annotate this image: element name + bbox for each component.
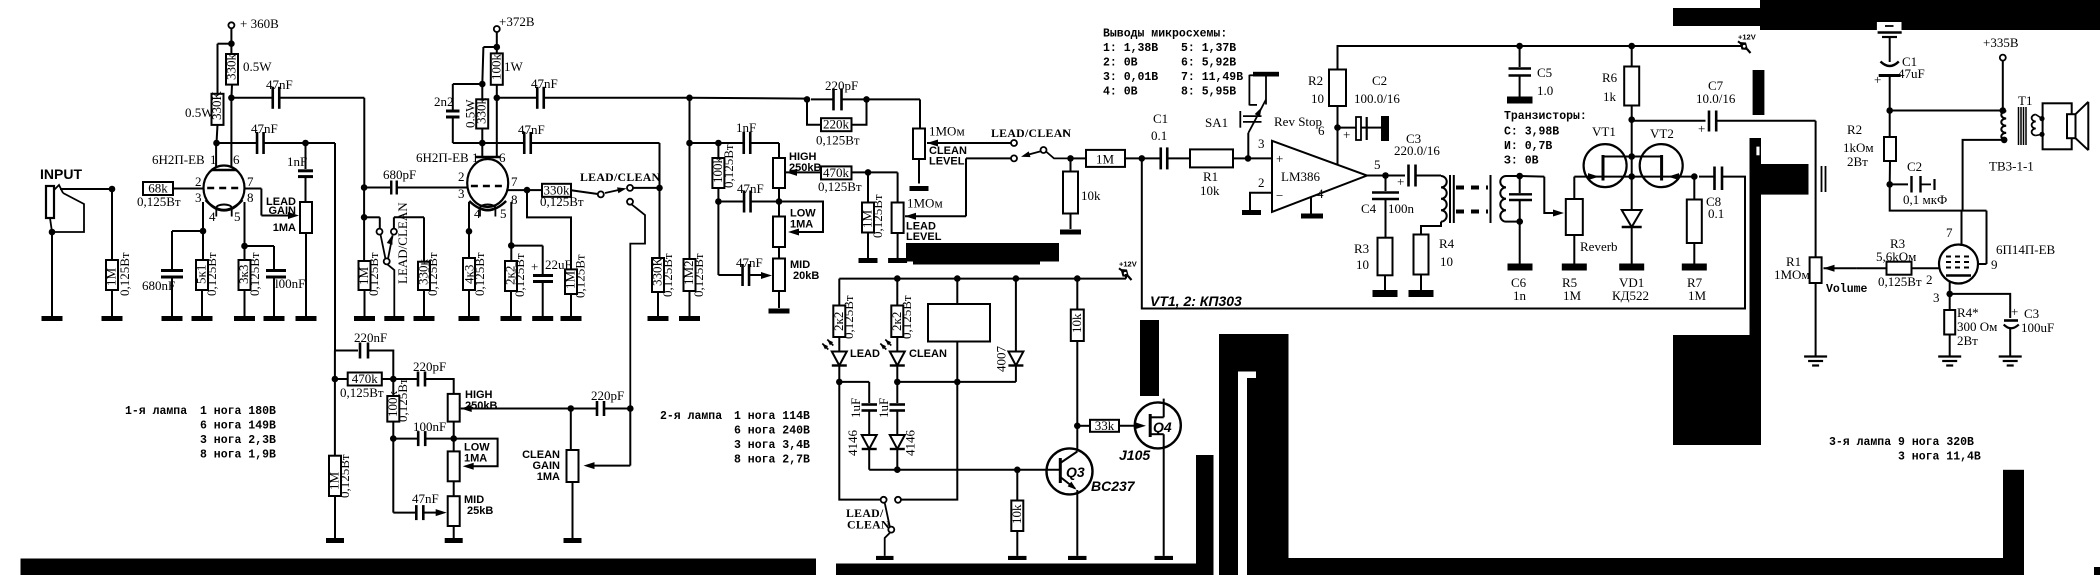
resistor 10k Q3 collector load [1071, 310, 1084, 342]
pin6 line [1337, 106, 1339, 165]
wire anode node [1890, 184, 1987, 210]
svg-text:1МОм: 1МОм [1774, 267, 1810, 282]
LED CLEAN indicator [896, 337, 898, 352]
svg-text:10: 10 [1311, 91, 1324, 106]
black bar E [1753, 70, 1765, 115]
grid leak network stage2 [361, 184, 368, 191]
svg-text:100uF: 100uF [2021, 320, 2054, 335]
svg-text:1 нога 114В: 1 нога 114В [734, 410, 810, 423]
drain Q4 to relay line (under blob) [1150, 416, 1164, 418]
resistor 330k 0,125W grid B [542, 184, 571, 197]
svg-text:220pF: 220pF [591, 388, 624, 403]
svg-text:680nF: 680nF [142, 278, 175, 293]
svg-text:VT1, 2: КП303: VT1, 2: КП303 [1150, 293, 1242, 309]
pin4 to ground [1310, 197, 1312, 214]
transistor VT1 KP303 [1584, 144, 1627, 187]
wire lead level wiper to switch [905, 213, 916, 220]
resistor 100k tone [717, 143, 719, 158]
svg-text:0,125Вт: 0,125Вт [425, 252, 440, 296]
node A [804, 96, 811, 103]
capacitor C6 1n across pickup [1519, 176, 1521, 193]
resistor R6 1k supply [1624, 67, 1639, 106]
svg-text:4146: 4146 [903, 430, 918, 457]
svg-text:ТВ3-1-1: ТВ3-1-1 [1989, 159, 2034, 174]
resistor 1M2 load [689, 98, 691, 143]
reverb pickup coil [1500, 176, 1506, 222]
dashed link to reverb tank [1456, 186, 1488, 190]
svg-text:0.1: 0.1 [1708, 206, 1724, 221]
wire +12V rail [1338, 46, 1745, 70]
chassis ground top [1878, 31, 1902, 33]
svg-text:1: 1,38В: 1: 1,38В [1103, 42, 1158, 55]
relay K1 coil box [928, 304, 990, 342]
svg-text:C5: C5 [1537, 65, 1552, 80]
resistor 330k 0.5W anode A load [218, 43, 232, 45]
svg-text:КД522: КД522 [1612, 288, 1649, 303]
potentiometer R5 Reverb 1M [1566, 199, 1583, 235]
svg-text:2Вт: 2Вт [1957, 333, 1978, 348]
resistor 330k lead path load [659, 188, 661, 258]
svg-text:+: + [2011, 304, 2018, 319]
svg-text:47uF: 47uF [1898, 66, 1925, 81]
extra cap plates near blob [1821, 166, 1823, 192]
potentiometer LEAD GAIN 1MA [300, 202, 312, 233]
svg-text:+: + [1343, 127, 1350, 142]
svg-text:0.5W: 0.5W [243, 59, 272, 74]
black redaction blob middle [906, 243, 1059, 262]
svg-text:5: 5 [500, 206, 507, 221]
resistor 33k to Q4 gate [1077, 425, 1090, 427]
black bar G above Q4 [1140, 320, 1159, 396]
svg-text:0,125Вт: 0,125Вт [573, 254, 588, 298]
capacitor 1uF clean chain [896, 382, 898, 403]
svg-text:100n: 100n [1388, 201, 1415, 216]
svg-text:220.0/16: 220.0/16 [1394, 143, 1440, 158]
wire LED lead chain to switch contact [839, 382, 880, 500]
wire B+ node [1890, 110, 2003, 112]
svg-text:3 нога 3,4В: 3 нога 3,4В [734, 439, 810, 452]
svg-text:10: 10 [1440, 254, 1453, 269]
resistor 1M clean grid load [334, 379, 336, 456]
svg-text:+12V: +12V [1119, 260, 1137, 269]
wire clean level wiper to switch [927, 140, 938, 147]
resistor R1 10k [1190, 149, 1233, 167]
grid wire pin2 from R3 [1912, 267, 1940, 269]
svg-text:+: + [1276, 151, 1283, 166]
diode 4146 lead chain [868, 411, 870, 436]
svg-text:1n: 1n [1513, 288, 1527, 303]
svg-text:SA1: SA1 [1205, 115, 1228, 130]
svg-text:VT1: VT1 [1592, 124, 1616, 139]
svg-text:4: 4 [209, 209, 216, 224]
transistor VT2 KP303 [1640, 144, 1683, 187]
svg-text:+: + [1874, 72, 1881, 87]
svg-text:INPUT: INPUT [40, 166, 82, 182]
svg-text:0,125Вт: 0,125Вт [137, 194, 181, 209]
svg-text:R6: R6 [1602, 70, 1618, 85]
svg-text:0,125Вт: 0,125Вт [366, 252, 381, 296]
LED LEAD indicator [838, 337, 840, 352]
svg-text:LEAD/CLEAN: LEAD/CLEAN [580, 170, 661, 184]
svg-text:3: 0,01В: 3: 0,01В [1103, 71, 1158, 84]
svg-text:7: 7 [1946, 225, 1953, 240]
svg-text:0,125Вт: 0,125Вт [841, 295, 856, 339]
svg-text:1M: 1M [1563, 288, 1582, 303]
potentiometer LEAD LEVEL 1MOm [868, 171, 898, 173]
wire relay drive down to switch [902, 382, 958, 500]
svg-text:0,125Вт: 0,125Вт [899, 295, 914, 339]
svg-text:4: 4 [474, 206, 481, 221]
potentiometer CLEAN LEVEL 1MOm [913, 129, 925, 160]
svg-text:1MA: 1MA [464, 453, 487, 465]
black bottom bar 2 [836, 564, 1214, 575]
transformer core [1449, 175, 1451, 223]
tube V3 6P14P-EV output pentode [1939, 245, 1978, 284]
svg-text:9: 9 [1991, 257, 1998, 272]
resistor 330k 0.5W anode A load stage2 [483, 46, 496, 48]
capacitor C1 47uF filter [1881, 62, 1899, 67]
gate line VT1 VT2 [1574, 176, 1694, 178]
svg-text:0.5W: 0.5W [463, 99, 478, 128]
resistor 4k3 cathode A stage2 [468, 202, 470, 258]
resistor 2k2 LED clean [896, 279, 898, 306]
svg-text:0.1: 0.1 [1151, 128, 1167, 143]
svg-text:1nF: 1nF [287, 154, 307, 169]
svg-text:2: 2 [1926, 272, 1933, 287]
svg-text:2n2: 2n2 [434, 94, 454, 109]
svg-text:LEVEL: LEVEL [906, 231, 942, 243]
svg-text:1 нога 180В: 1 нога 180В [200, 405, 276, 418]
resistor 10k to ground [1070, 158, 1072, 171]
speaker [2043, 103, 2072, 149]
wire grid B pin7 to pot wiper [244, 188, 261, 190]
svg-text:0,125Вт: 0,125Вт [870, 194, 885, 238]
svg-text:0,125Вт: 0,125Вт [204, 252, 219, 296]
svg-text:0,125Вт: 0,125Вт [117, 252, 132, 296]
black bar top A [1673, 8, 1760, 26]
cathode B stage2 [510, 202, 512, 246]
collector Q3 [1060, 452, 1077, 464]
svg-text:7: 7 [511, 174, 518, 189]
svg-text:100k: 100k [488, 54, 503, 81]
svg-text:C4: C4 [1361, 201, 1377, 216]
svg-text:680pF: 680pF [383, 167, 416, 182]
resistor 330k 0.5W anode B load [230, 44, 232, 54]
svg-text:LEAD/CLEAN: LEAD/CLEAN [395, 202, 410, 284]
svg-text:6: 6 [1318, 123, 1325, 138]
wire anode A row [453, 142, 483, 144]
potentiometer MID 20k [773, 259, 785, 292]
svg-text:1k: 1k [1603, 89, 1617, 104]
resistor 100k 1W anode B load [496, 47, 498, 53]
svg-text:0,125Вт: 0,125Вт [816, 133, 860, 148]
svg-text:R4: R4 [1439, 236, 1455, 251]
pin2 to ground [1250, 193, 1272, 210]
capacitor C3 100uF cathode bypass [1950, 294, 2011, 318]
resistor 100k clean [392, 379, 394, 396]
svg-text:1: 1 [472, 150, 479, 165]
capacitor 2n2 anode A [453, 83, 483, 85]
potentiometer HIGH 250k [773, 158, 785, 188]
black bottom bar 3 [1289, 558, 2004, 575]
svg-text:0.5W: 0.5W [185, 105, 214, 120]
potentiometer HIGH 250k clean [448, 394, 460, 422]
svg-text:6: 6 [233, 152, 240, 167]
svg-text:0,125Вт: 0,125Вт [721, 144, 736, 188]
black column I [1219, 372, 1238, 575]
resistor 2k2 LED lead [838, 279, 840, 306]
svg-text:R2: R2 [1308, 73, 1323, 88]
svg-text:6: 6 [499, 150, 506, 165]
resistor R2 1kOm 2W [1889, 111, 1891, 138]
drain leads to common node [1603, 156, 1632, 158]
svg-text:1МОм: 1МОм [929, 124, 965, 139]
wire relay rail [839, 278, 1126, 280]
resistor R3 5,6kOm [1887, 262, 1912, 275]
svg-text:3: 3 [1933, 290, 1940, 305]
wire pin7 anode [1961, 211, 1963, 246]
black rect H [1219, 334, 1289, 372]
svg-text:5,6kОм: 5,6kОм [1876, 249, 1916, 264]
svg-text:2: 2 [195, 174, 202, 189]
wire anode A pin1 to node [215, 143, 217, 168]
svg-text:10k: 10k [1081, 188, 1101, 203]
svg-text:100.0/16: 100.0/16 [1354, 91, 1400, 106]
wire transformer primary return [1963, 140, 2005, 211]
resistor R4* 300 Om 2W [1949, 294, 1951, 310]
svg-text:T1: T1 [2018, 93, 2032, 108]
svg-text:1M: 1M [1688, 288, 1707, 303]
switch LEAD/CLEAN stage2 grid [364, 216, 380, 218]
resistor R2 10 supply [1329, 70, 1346, 107]
svg-text:8: 5,95В: 8: 5,95В [1181, 86, 1236, 99]
svg-text:C1: C1 [1153, 111, 1168, 126]
black column J [1247, 372, 1289, 575]
svg-text:1М: 1М [1096, 151, 1115, 166]
wire clean path down to clean gain [630, 204, 645, 409]
svg-text:3-я лампа 9 нога 320В: 3-я лампа 9 нога 320В [1829, 436, 1974, 449]
svg-text:6: 5,92В: 6: 5,92В [1181, 57, 1236, 70]
svg-text:R3: R3 [1354, 241, 1369, 256]
pin5 output node [1367, 175, 1386, 177]
svg-text:1MA: 1MA [790, 219, 813, 231]
svg-text:470k: 470k [352, 371, 379, 386]
cathode B network [244, 202, 246, 246]
svg-text:6Н2П-ЕВ: 6Н2П-ЕВ [152, 152, 205, 167]
svg-text:8 нога 1,9В: 8 нога 1,9В [200, 449, 276, 462]
svg-text:1-я лампа: 1-я лампа [125, 405, 187, 418]
wire relay bottom row [897, 381, 1016, 383]
power terminal +360V [228, 22, 234, 28]
svg-text:BC237: BC237 [1091, 478, 1136, 494]
svg-text:5: 5 [1374, 157, 1381, 172]
wire top row lead channel [690, 97, 808, 100]
resistor 10k Q3 base [1016, 470, 1018, 501]
resistor 3k3 cathode B [244, 246, 246, 260]
svg-text:Volume: Volume [1826, 283, 1868, 296]
svg-text:10: 10 [1356, 257, 1369, 272]
svg-text:3 нога 11,4В: 3 нога 11,4В [1898, 451, 1981, 464]
jack switch contact to ground [52, 193, 84, 232]
svg-text:+335В: +335В [1983, 35, 2019, 50]
svg-text:1МОм: 1МОм [907, 196, 943, 211]
svg-text:0,125Вт: 0,125Вт [691, 253, 706, 297]
resistor 1M input load [109, 186, 116, 193]
svg-text:7: 7 [247, 174, 254, 189]
switch common to ground [384, 258, 390, 264]
svg-text:Транзисторы:: Транзисторы: [1504, 110, 1587, 123]
resistor 2k2 cathode B stage2 [510, 246, 512, 261]
svg-text:LEVEL: LEVEL [929, 156, 965, 168]
op-amp U1 LM386 [1272, 141, 1367, 212]
svg-text:2Вт: 2Вт [1847, 154, 1868, 169]
cathode A network [202, 202, 204, 231]
svg-text:6Н2П-ЕВ: 6Н2П-ЕВ [416, 150, 469, 165]
svg-text:300 Ом: 300 Ом [1957, 319, 1997, 334]
capacitor 680nF cathode A bypass [172, 230, 203, 232]
svg-text:7: 11,49В: 7: 11,49В [1181, 71, 1243, 84]
grid B wire stage2 to 330k [508, 189, 527, 191]
resistor R3 10 [1378, 238, 1393, 276]
svg-text:5: 5 [234, 209, 241, 224]
diode VD1 KD522 [1631, 177, 1633, 210]
svg-text:25kB: 25kB [467, 505, 493, 517]
svg-text:И: 0,7В: И: 0,7В [1504, 140, 1552, 153]
svg-text:R1: R1 [1203, 169, 1218, 184]
power terminal +372V [494, 26, 500, 32]
svg-text:5: 1,37В: 5: 1,37В [1181, 42, 1236, 55]
diode 4146 clean chain [896, 411, 898, 436]
svg-text:6 нога 240В: 6 нога 240В [734, 425, 810, 438]
capacitor C5 1.0 supply filter [1516, 43, 1523, 50]
svg-text:0,125Вт: 0,125Вт [818, 179, 862, 194]
capacitor 1uF lead chain [839, 381, 869, 383]
cathode pin3 node [1949, 282, 1951, 294]
svg-text:+372В: +372В [499, 14, 535, 29]
svg-text:0,125Вт: 0,125Вт [540, 194, 584, 209]
svg-text:0,125Вт: 0,125Вт [247, 252, 262, 296]
svg-text:l00nF: l00nF [275, 276, 305, 291]
black bar top B [1760, 0, 2100, 30]
black corner bottom right [2094, 567, 2100, 575]
svg-text:2: 2 [1258, 175, 1265, 190]
potentiometer R1 1MOm Volume [1824, 265, 1835, 272]
svg-text:330k: 330k [224, 54, 239, 81]
wire diode bottoms to Q3 base [869, 469, 1060, 471]
svg-text:10k: 10k [1069, 313, 1084, 333]
svg-text:1nF: 1nF [736, 120, 756, 135]
svg-text:1МА: 1МА [273, 222, 296, 234]
svg-text:C2: C2 [1907, 159, 1922, 174]
wire HIGH wiper clean to 220pF2 [461, 405, 472, 412]
transistor Q3 BC237 [1047, 448, 1093, 494]
svg-text:4: 0В: 4: 0В [1103, 86, 1138, 99]
resistor 1M to clean network [527, 190, 571, 269]
svg-text:VT2: VT2 [1650, 126, 1674, 141]
wire clean gain wiper [629, 409, 631, 466]
svg-text:+: + [531, 259, 538, 274]
svg-text:47nF: 47nF [412, 491, 439, 506]
source Q4 to ground [1150, 433, 1164, 435]
svg-text:220k: 220k [823, 117, 850, 132]
svg-text:33k: 33k [1095, 418, 1115, 433]
svg-text:0,125Вт: 0,125Вт [395, 378, 410, 422]
reverb return wire to input node [1142, 158, 1745, 308]
resistor 1M lead level load [867, 172, 869, 202]
wire anode B pin6 [230, 99, 232, 169]
svg-text:4: 4 [1317, 186, 1324, 201]
resistor 220k parallel [807, 99, 821, 124]
wire to clean level pot [867, 98, 921, 100]
svg-text:+: + [1698, 121, 1705, 136]
svg-text:Выводы микросхемы:: Выводы микросхемы: [1103, 28, 1227, 41]
svg-text:10.0/16: 10.0/16 [1696, 91, 1736, 106]
svg-text:Reverb: Reverb [1580, 239, 1618, 254]
svg-text:1uF: 1uF [848, 398, 863, 418]
svg-text:C3: C3 [2024, 306, 2039, 321]
svg-text:0,125Вт: 0,125Вт [512, 253, 527, 297]
black column L [2003, 470, 2024, 575]
potentiometer LOW 1MA with wiper loop [773, 217, 785, 248]
black bottom bar 1 [21, 559, 817, 575]
wire lead row y143 [715, 140, 722, 147]
svg-text:С: 3,98В: С: 3,98В [1504, 126, 1559, 139]
svg-text:+12V: +12V [1738, 33, 1756, 42]
svg-text:0,125Вт: 0,125Вт [660, 253, 675, 297]
svg-text:1.0: 1.0 [1537, 83, 1553, 98]
svg-text:8 нога 2,7В: 8 нога 2,7В [734, 454, 810, 467]
svg-text:0,125Вт: 0,125Вт [337, 454, 352, 498]
svg-text:Q4: Q4 [1153, 419, 1172, 435]
resistor 470k from HIGH wiper [786, 169, 797, 176]
potentiometer MID 25k clean [448, 496, 460, 526]
svg-text:R2: R2 [1847, 122, 1862, 137]
transformer T1 secondary [2032, 115, 2036, 136]
black blob F [1673, 335, 1761, 445]
transformer T driver coil [1441, 176, 1447, 222]
potentiometer LOW 1MA clean with loop [448, 451, 460, 481]
svg-text:2: 2 [458, 169, 465, 184]
resistor 470k clean feed [332, 376, 339, 383]
svg-text:1MA: 1MA [537, 471, 560, 483]
svg-text:6 нога 149В: 6 нога 149В [200, 420, 276, 433]
svg-text:3: 3 [195, 190, 202, 205]
svg-text:4007: 4007 [994, 346, 1009, 373]
svg-text:З: 0В: З: 0В [1504, 155, 1539, 168]
svg-text:Q3: Q3 [1066, 464, 1085, 480]
wire lead path to clean network [306, 142, 336, 144]
resistor 68k grid stopper [143, 182, 173, 195]
svg-text:0,125Вт: 0,125Вт [340, 385, 384, 400]
svg-text:3 нога 2,3В: 3 нога 2,3В [200, 434, 276, 447]
svg-text:10k: 10k [1200, 183, 1220, 198]
resistor R4 10 [1414, 235, 1429, 275]
capacitor 22uF cathode bypass [511, 245, 542, 247]
svg-text:+ 360В: + 360В [240, 16, 279, 31]
wire pin9 screen [1986, 211, 1988, 264]
svg-text:3: 3 [1258, 136, 1265, 151]
svg-text:R4*: R4* [1957, 305, 1979, 320]
resistor 5k1 cathode A [202, 231, 204, 260]
svg-text:−: − [1276, 188, 1283, 203]
svg-text:1W: 1W [504, 59, 524, 74]
capacitor 100nF cathode B bypass [245, 245, 275, 247]
svg-text:0,125Вт: 0,125Вт [472, 252, 487, 296]
resistor R7 1M [1691, 173, 1698, 180]
svg-text:CLEAN: CLEAN [909, 348, 947, 360]
svg-text:8: 8 [247, 190, 254, 205]
wire to reverb pot wiper [1520, 175, 1545, 178]
